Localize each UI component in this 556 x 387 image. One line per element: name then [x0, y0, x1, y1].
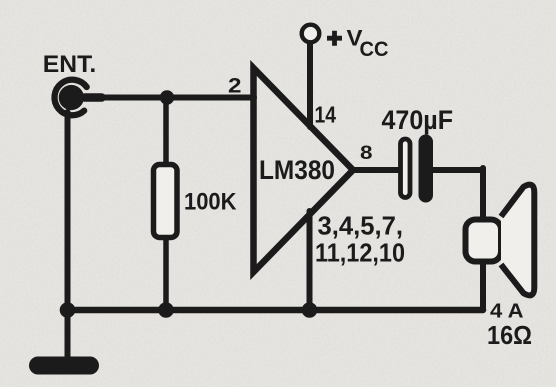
node A: input junction dot	[160, 90, 174, 104]
wire: right vertical down to speaker and rail	[480, 168, 486, 310]
speaker LS1 cone	[501, 185, 534, 296]
wire: +Vcc terminal down to pin 14 on U1 top edge	[307, 43, 313, 127]
speaker LS1 driver (rounded square)	[466, 220, 502, 262]
+Vcc terminal circle	[302, 25, 320, 43]
wire: ground rail (bottom bus)	[68, 307, 484, 314]
svg-text:11,12,10: 11,12,10	[315, 238, 405, 268]
svg-text:LM380: LM380	[259, 155, 335, 185]
wire: left vertical from rail to ground symbol	[65, 310, 71, 360]
svg-text:3,4,5,7,: 3,4,5,7,	[318, 211, 404, 241]
svg-text:ENT.: ENT.	[43, 51, 97, 78]
wire: pin 8 output to capacitor C1	[352, 167, 399, 173]
op-amp U1 LM380 triangle	[254, 68, 354, 272]
svg-text:100K: 100K	[184, 189, 237, 216]
resistor R1 body	[154, 165, 178, 238]
wire: U1 ground pins down to rail	[307, 211, 313, 310]
wire: input node down to resistor R1 top	[163, 98, 169, 167]
input jack stub to wire	[80, 93, 106, 102]
wire: input jack to pin 2 of U1	[84, 95, 254, 101]
label +V	[327, 31, 342, 46]
node D: rail junction dot at U1 ground pins	[302, 302, 318, 318]
svg-text:14: 14	[315, 102, 337, 128]
svg-text:470µF: 470µF	[382, 105, 454, 135]
ground symbol (solid bar)	[29, 357, 99, 375]
svg-text:2: 2	[228, 74, 242, 98]
capacitor C1 left plate (outline)	[401, 139, 411, 198]
node C: rail junction dot at resistor branch	[158, 302, 174, 318]
input jack J1 inner contact (filled)	[59, 85, 84, 110]
svg-text:8: 8	[360, 142, 373, 164]
node B: rail junction dot at left vertical	[60, 302, 76, 318]
input jack J1 outer ring	[54, 80, 86, 116]
svg-text:16Ω: 16Ω	[487, 320, 532, 350]
wire: jack sleeve down left side to ground rail	[65, 112, 71, 310]
wire: capacitor C1 to top-right corner	[432, 167, 483, 173]
wire: resistor R1 bottom to ground rail	[163, 237, 169, 310]
svg-text:CC: CC	[360, 37, 389, 61]
capacitor C1 right plate (solid)	[419, 135, 434, 203]
